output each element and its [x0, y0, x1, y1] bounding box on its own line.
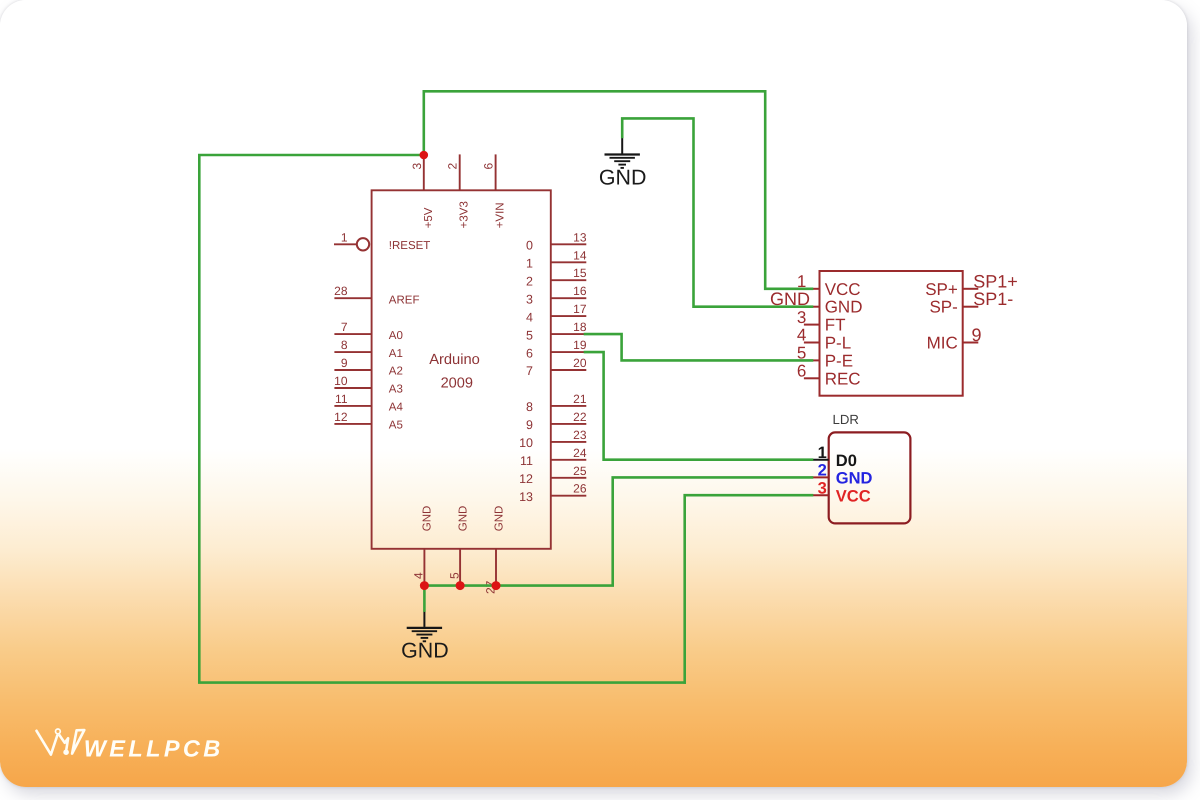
svg-text:D0: D0: [836, 452, 857, 470]
svg-text:15: 15: [573, 266, 587, 280]
svg-text:A0: A0: [389, 330, 403, 342]
svg-text:7: 7: [526, 364, 533, 378]
svg-text:2009: 2009: [441, 376, 473, 392]
svg-text:GND: GND: [599, 165, 647, 189]
svg-text:3: 3: [410, 163, 424, 170]
U3 body outline: [829, 432, 911, 523]
U2 left pin FT: [797, 308, 846, 335]
svg-text:A1: A1: [389, 348, 403, 360]
svg-text:7: 7: [341, 320, 348, 334]
svg-text:6: 6: [482, 163, 496, 170]
svg-text:+5V: +5V: [423, 207, 435, 228]
U1 bottom pin 27 GND: [483, 506, 505, 594]
U1 bottom pin 5 GND: [447, 506, 469, 586]
LDR sensor module U3: [811, 412, 911, 523]
wire net N$3: U1 pin 19 to LDR pin 1 D0: [585, 352, 812, 460]
svg-text:13: 13: [573, 230, 587, 244]
U1 right pin 25 (digital 12): [519, 464, 587, 486]
U1 right pin 13 (digital 0): [526, 230, 587, 252]
U2 left pin GND: [804, 298, 863, 317]
U1 left pin 11 A4: [334, 392, 403, 414]
svg-text:A2: A2: [389, 366, 403, 378]
U2 left pin REC: [797, 362, 861, 389]
svg-text:5: 5: [526, 328, 533, 342]
U1 left pin 8 A1: [334, 338, 402, 360]
svg-text:17: 17: [573, 302, 587, 316]
U1 right pin 14 (digital 1): [526, 248, 587, 270]
svg-text:25: 25: [573, 464, 587, 478]
U2 right pin SP+: [925, 280, 978, 299]
svg-text:9: 9: [526, 418, 533, 432]
U1 right pin 15 (digital 2): [526, 266, 587, 288]
svg-text:+VIN: +VIN: [495, 202, 507, 228]
svg-text:A4: A4: [389, 402, 404, 414]
svg-text:11: 11: [335, 392, 348, 406]
svg-text:4: 4: [797, 326, 806, 345]
svg-text:MIC: MIC: [927, 334, 958, 353]
svg-text:9: 9: [972, 325, 982, 345]
U1 right pin 21 (digital 8): [526, 392, 587, 414]
wire net N$1 +5V: junction up over top rail to U2 VCC pin 1: [424, 91, 812, 288]
U1 right pin 20 (digital 7): [526, 356, 587, 378]
svg-text:9: 9: [341, 356, 348, 370]
svg-text:P-L: P-L: [825, 334, 851, 353]
U1 right pin 16 (digital 3): [526, 284, 587, 306]
svg-text:A3: A3: [389, 384, 403, 396]
svg-text:12: 12: [334, 410, 348, 424]
svg-text:3: 3: [526, 292, 533, 306]
svg-text:4: 4: [412, 572, 426, 579]
U1 left pin 9 A2: [334, 356, 402, 378]
svg-text:28: 28: [334, 284, 348, 298]
svg-text:6: 6: [526, 346, 533, 360]
U1 right pin 18 (digital 5): [526, 320, 587, 342]
svg-text:1: 1: [818, 444, 827, 462]
Arduino 2009 module U1: [334, 154, 587, 594]
U1 right pin 23 (digital 10): [519, 428, 587, 450]
svg-text:10: 10: [334, 374, 348, 388]
svg-text:WELLPCB: WELLPCB: [84, 736, 224, 762]
junction dot +5V at U1 pin 3: [420, 151, 429, 160]
svg-text:22: 22: [573, 410, 587, 424]
svg-text:!RESET: !RESET: [389, 240, 431, 252]
U3 pin 2 GND: [811, 462, 873, 488]
U1 top pin 6 +VIN: [482, 154, 507, 228]
wire net N$1 +5V: junction to left rail and bottom rail: [199, 155, 684, 683]
svg-text:20: 20: [573, 356, 587, 370]
U1 body outline: [372, 190, 551, 549]
U2 right pin 9 MIC: [927, 325, 982, 353]
svg-text:SP-: SP-: [929, 298, 957, 317]
svg-text:FT: FT: [825, 316, 846, 335]
svg-text:23: 23: [573, 428, 587, 442]
svg-text:VCC: VCC: [836, 487, 871, 505]
svg-text:8: 8: [526, 400, 533, 414]
svg-text:GND: GND: [422, 506, 434, 532]
wire net GND: bottom bus to LDR pin 2 GND: [424, 477, 812, 585]
svg-text:+3V3: +3V3: [459, 201, 471, 228]
U2 right pin SP-: [929, 298, 978, 317]
svg-text:14: 14: [573, 248, 587, 262]
wire net N$1 +5V: riser from bottom rail to LDR pin 3 VCC: [685, 495, 812, 682]
svg-text:1: 1: [341, 230, 348, 244]
svg-text:12: 12: [519, 472, 533, 486]
svg-text:2: 2: [526, 274, 533, 288]
U1 right pin 19 (digital 6): [526, 338, 587, 360]
svg-text:A5: A5: [389, 420, 403, 432]
U2 left pin P-L: [797, 326, 851, 353]
svg-text:18: 18: [573, 320, 587, 334]
junction dot GND at U1 pin 4: [420, 581, 429, 590]
svg-text:2: 2: [818, 462, 827, 480]
svg-text:3: 3: [797, 308, 806, 327]
junction dot GND at U1 pin 5: [456, 581, 465, 590]
svg-text:5: 5: [447, 572, 461, 579]
WELLPCB logo mark: [37, 729, 85, 755]
svg-text:P-E: P-E: [825, 351, 853, 370]
U3 pin 3 VCC: [811, 480, 871, 506]
svg-text:24: 24: [573, 446, 587, 460]
svg-text:REC: REC: [825, 369, 861, 388]
wire net N$2: U1 pin 18 to U2 P-E pin 5: [585, 334, 812, 360]
svg-text:10: 10: [519, 436, 533, 450]
svg-text:3: 3: [818, 480, 827, 498]
svg-text:SP1-: SP1-: [973, 289, 1013, 309]
svg-text:26: 26: [573, 482, 587, 496]
ground symbol top: [599, 136, 647, 189]
svg-text:2: 2: [446, 163, 460, 170]
U1 top pin 3 +5V: [410, 155, 435, 228]
sound module U2 (voice record/playback): [770, 271, 1018, 396]
svg-text:19: 19: [573, 338, 587, 352]
svg-text:8: 8: [341, 338, 348, 352]
U1 right pin 17 (digital 4): [526, 302, 587, 324]
svg-text:21: 21: [573, 392, 587, 406]
U2 left pin P-E: [797, 344, 853, 371]
svg-text:13: 13: [519, 490, 533, 504]
junction dot GND at U1 pin 27: [492, 581, 501, 590]
svg-text:GND: GND: [401, 639, 449, 663]
svg-text:AREF: AREF: [389, 294, 420, 306]
U1 top pin 2 +3V3: [446, 154, 471, 228]
svg-text:GND: GND: [493, 506, 505, 532]
U1 left pin 7 A0: [334, 320, 402, 342]
ground symbol bottom: [401, 610, 449, 663]
U2 left pin VCC: [797, 272, 861, 299]
svg-text:Arduino: Arduino: [429, 352, 480, 368]
svg-text:16: 16: [573, 284, 587, 298]
svg-text:VCC: VCC: [825, 280, 861, 299]
U1 right pin 24 (digital 11): [520, 446, 587, 468]
U1 left pin 1 !RESET (inverted, with circle): [334, 230, 430, 252]
svg-text:4: 4: [526, 310, 533, 324]
svg-text:GND: GND: [457, 506, 469, 532]
svg-text:GND: GND: [836, 470, 873, 488]
wire net GND: top ground symbol to U2 GND pin 2: [622, 118, 812, 306]
svg-text:SP+: SP+: [925, 280, 958, 299]
svg-text:11: 11: [520, 454, 533, 468]
svg-text:6: 6: [797, 362, 806, 381]
U1 bottom pin 4 GND: [412, 506, 434, 586]
svg-text:GND: GND: [825, 298, 863, 317]
U1 left pin 10 A3: [334, 374, 403, 396]
U1 right pin 26 (digital 13): [519, 482, 587, 504]
U1 left pin 12 A5: [334, 410, 403, 432]
svg-text:LDR: LDR: [833, 412, 859, 427]
U2 body outline: [820, 271, 963, 396]
U1 left pin 28 AREF: [334, 284, 419, 306]
wire net GND: drop from bus to bottom ground symbol: [423, 586, 426, 611]
U1 right pin 22 (digital 9): [526, 410, 587, 432]
svg-text:0: 0: [526, 239, 533, 253]
svg-text:1: 1: [526, 257, 533, 271]
U3 pin 1 D0: [811, 444, 857, 470]
